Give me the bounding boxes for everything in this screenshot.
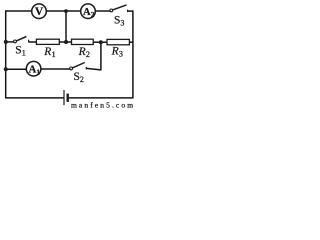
wire S2 contact to corner [86, 68, 101, 70]
resistor R1 [36, 39, 59, 59]
switch S1 [14, 37, 29, 58]
svg-text:1: 1 [22, 49, 26, 58]
svg-text:2: 2 [91, 11, 95, 19]
wire R1 to R2 [59, 41, 71, 43]
voltmeter V [32, 4, 47, 19]
wire R2 to R3 [93, 41, 107, 43]
wire A2 to S3 pivot [95, 10, 110, 12]
wire V to A2 [46, 10, 81, 12]
svg-text:V: V [35, 6, 44, 18]
node left rail rung [4, 40, 8, 44]
svg-text:R: R [43, 46, 51, 58]
svg-text:manfen5.com: manfen5.com [71, 101, 135, 109]
node D junction [99, 40, 103, 44]
svg-text:A: A [29, 65, 37, 76]
svg-text:R: R [78, 46, 86, 58]
node left rail A1 branch [4, 67, 8, 71]
wire top-left segment [6, 10, 32, 12]
resistor R3 [107, 39, 129, 58]
ammeter A2 [81, 4, 96, 19]
wire battery to bottom right [69, 97, 134, 99]
switch S2 [70, 63, 87, 84]
node C top junction [64, 9, 68, 13]
node C rung junction [64, 40, 68, 44]
wire D vertical down to S2 branch [100, 42, 102, 70]
wire A1 to S2 pivot [41, 68, 70, 70]
svg-text:2: 2 [86, 50, 90, 59]
ammeter A1 [26, 61, 41, 76]
svg-text:A: A [83, 7, 91, 18]
battery cell [64, 90, 68, 105]
svg-text:1: 1 [37, 68, 41, 76]
wire S3 contact to right rail [128, 10, 134, 12]
wire node C vertical [65, 11, 67, 42]
svg-text:2: 2 [80, 75, 84, 84]
switch S3 [110, 5, 128, 28]
svg-text:1: 1 [52, 50, 56, 59]
wire bottom left to battery [5, 97, 63, 99]
wire left rail [5, 10, 7, 98]
wire R3 to right rail [129, 41, 133, 43]
wire S1 contact to R1 [29, 41, 37, 43]
svg-text:R: R [111, 46, 119, 58]
wire rail to A1 [6, 68, 27, 70]
svg-text:3: 3 [119, 50, 123, 59]
wire S1 rail to pivot [6, 41, 14, 43]
svg-text:3: 3 [120, 18, 124, 27]
resistor R2 [72, 39, 94, 59]
wire right rail [132, 10, 134, 98]
